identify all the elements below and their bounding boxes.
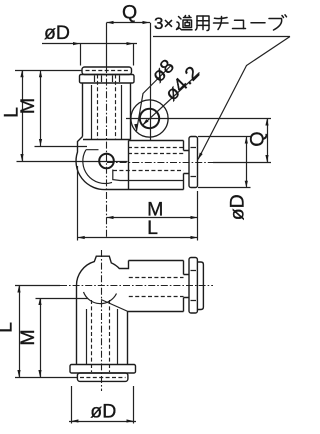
svg-text:L: L xyxy=(147,217,158,239)
svg-text:L: L xyxy=(0,322,16,333)
svg-text:øD: øD xyxy=(90,400,116,422)
svg-text:øD: øD xyxy=(227,194,249,220)
svg-text:3×: 3× xyxy=(154,14,173,33)
svg-text:øD: øD xyxy=(44,22,70,44)
svg-text:M: M xyxy=(17,329,39,345)
svg-text:Q: Q xyxy=(247,131,269,146)
svg-text:M: M xyxy=(17,98,39,114)
svg-text:Q: Q xyxy=(122,2,137,24)
